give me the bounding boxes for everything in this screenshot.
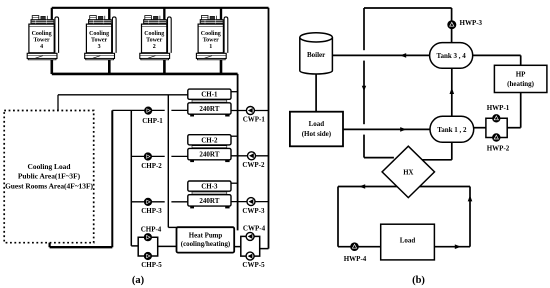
wire: C to heat pump corner <box>168 226 177 228</box>
svg-text:CH-3: CH-3 <box>201 183 218 191</box>
wire: vertical V2 pump suction header <box>130 110 132 246</box>
wire: vertical header A (condenser return riser) <box>237 74 239 231</box>
svg-text:1: 1 <box>209 44 212 50</box>
cooling tower 3 <box>85 8 116 74</box>
svg-text:CHP-4: CHP-4 <box>141 225 162 233</box>
wire: HP to HWP loop <box>507 127 521 129</box>
svg-text:Load: Load <box>400 237 416 245</box>
pump CHP-4 <box>144 233 152 241</box>
wire: CHP-2 to 240RT stub <box>171 155 187 157</box>
wire: V2 to CHP-4/5 loop <box>131 245 138 247</box>
pump HWP-4 <box>350 242 359 251</box>
svg-text:CWP-3: CWP-3 <box>242 207 265 215</box>
boiler <box>300 33 333 74</box>
wire: tank 1,2 to tank 3,4 <box>451 68 453 116</box>
wire: (b) left vertical lower <box>363 135 365 158</box>
wire: load to tank 1,2 <box>343 128 430 130</box>
svg-text:CHP-1: CHP-1 <box>142 117 163 125</box>
wire: CHP-3 line <box>131 201 164 203</box>
wire: CHP-3 to 240RT stub <box>171 201 187 203</box>
wire: down into HP top <box>520 55 522 65</box>
wire: loop left vertical <box>337 187 339 247</box>
svg-text:240RT: 240RT <box>199 105 219 113</box>
heat exchanger HX <box>382 146 434 197</box>
svg-text:Cooling: Cooling <box>201 31 221 37</box>
svg-text:HP: HP <box>516 70 526 78</box>
wire: CHP-1 line <box>112 109 164 111</box>
pump CWP-3 <box>247 198 255 206</box>
wire: load box bottom outlet <box>48 243 50 248</box>
heat pump unit <box>177 227 235 252</box>
wire: CWP-2 line <box>231 155 269 157</box>
svg-text:Guest Rooms Area(4F~13F): Guest Rooms Area(4F~13F) <box>5 182 93 191</box>
pump CHP-3 <box>144 198 152 206</box>
pump CWP-5 <box>246 252 254 260</box>
arrow up between tanks <box>450 88 455 94</box>
wire: vertical V1 return riser <box>111 110 113 247</box>
cooling load dashed box <box>4 111 94 243</box>
wire: (b) left vertical middle <box>363 61 365 125</box>
pump HWP-1 <box>492 114 500 122</box>
load box (b) <box>381 224 435 260</box>
wire: HWP-3 drop <box>451 8 453 43</box>
svg-text:Public Area(1F~3F): Public Area(1F~3F) <box>18 172 81 181</box>
svg-text:HWP-2: HWP-2 <box>487 145 510 153</box>
svg-text:Tower: Tower <box>91 38 107 44</box>
svg-text:Cooling: Cooling <box>32 31 52 37</box>
wire: CHP-2 line <box>131 155 164 157</box>
svg-text:(a): (a) <box>132 275 145 286</box>
wire: tank 1,2 bottom <box>451 142 453 160</box>
wire: HP down <box>520 93 522 128</box>
svg-text:CHP-3: CHP-3 <box>141 207 162 215</box>
wire: CH-1 supply line to load <box>58 94 188 96</box>
tank 3,4 <box>430 43 473 69</box>
tank 1,2 <box>430 116 474 142</box>
pump CWP-4 <box>246 232 254 240</box>
wire: loop top line <box>338 186 470 188</box>
svg-text:Load: Load <box>309 120 325 128</box>
load (hot side) box <box>290 112 343 147</box>
wire: condenser return bottom header <box>52 73 238 76</box>
wire: vertical header B (condenser supply riser) <box>268 8 270 249</box>
svg-text:(heating): (heating) <box>507 80 535 88</box>
wire: tank 3,4 to HP <box>473 54 521 56</box>
chiller CH-1 <box>188 89 231 116</box>
CHP-4/5 parallel pump loop <box>138 237 176 256</box>
svg-text:Cooling: Cooling <box>89 31 109 37</box>
wire: top drop tower 3 <box>108 8 110 20</box>
arrow right after load <box>455 244 461 249</box>
svg-text:CHP-2: CHP-2 <box>141 162 162 170</box>
wire: bottom return run <box>50 246 113 248</box>
wire: boiler to load (hot side) <box>315 74 317 112</box>
svg-text:Tank 1 , 2: Tank 1 , 2 <box>437 126 467 134</box>
wire: to HX upper-right <box>421 159 452 161</box>
cooling tower 4 <box>27 8 58 74</box>
svg-text:CWP-1: CWP-1 <box>243 116 266 124</box>
HP (heating) box <box>494 65 547 92</box>
svg-text:240RT: 240RT <box>199 151 219 159</box>
wire: CWP-3 line <box>231 201 269 203</box>
svg-text:CWP-2: CWP-2 <box>242 161 265 169</box>
pump HWP-3 <box>447 20 456 29</box>
svg-text:Tower: Tower <box>146 38 162 44</box>
svg-text:Tower: Tower <box>34 38 50 44</box>
HWP-1/2 parallel pump loop <box>486 118 507 137</box>
svg-text:CHP-5: CHP-5 <box>141 261 162 269</box>
pump HWP-2 <box>492 133 500 141</box>
svg-text:CH-2: CH-2 <box>201 136 218 144</box>
wire: (b) top header <box>364 7 452 9</box>
wire: loop right vertical <box>469 187 471 247</box>
svg-text:2: 2 <box>153 44 156 50</box>
svg-text:HWP-1: HWP-1 <box>487 104 510 112</box>
svg-text:(cooling/heating): (cooling/heating) <box>181 241 230 248</box>
pump CHP-2 <box>144 152 152 160</box>
arrow left on loop top <box>359 184 365 189</box>
wire: drop into load box top <box>57 95 59 111</box>
wire: condenser supply top header <box>52 7 269 9</box>
svg-text:Tower: Tower <box>203 38 219 44</box>
pump CHP-5 <box>144 252 152 260</box>
cooling tower 1 <box>196 8 227 74</box>
pump CWP-2 <box>248 152 256 160</box>
chiller CH-3 <box>188 181 231 208</box>
svg-text:CWP-5: CWP-5 <box>242 261 265 269</box>
svg-text:CH-1: CH-1 <box>201 91 218 99</box>
wire: loop bottom right <box>434 246 470 248</box>
svg-text:HX: HX <box>403 169 413 176</box>
svg-text:(Hot side): (Hot side) <box>302 130 332 138</box>
wire: CH-2 right stub <box>231 135 238 137</box>
CWP-4/5 parallel pump loop <box>234 236 268 256</box>
wire: CH-1 right stub <box>231 91 238 93</box>
arrow down on left vertical <box>362 86 366 92</box>
svg-text:CWP-4: CWP-4 <box>243 225 266 233</box>
wire: tank 1,2 to HWP loop <box>474 127 486 129</box>
svg-text:HWP-3: HWP-3 <box>460 19 483 27</box>
arrow up on loop right <box>468 195 473 201</box>
svg-text:Cooling: Cooling <box>144 31 164 37</box>
svg-text:4: 4 <box>40 44 43 50</box>
pump CWP-1 <box>246 107 254 115</box>
wire: vertical header C <box>167 95 169 228</box>
svg-text:HWP-4: HWP-4 <box>344 255 367 263</box>
svg-text:240RT: 240RT <box>199 197 219 205</box>
wire: CH-3 right stub <box>231 182 238 184</box>
wire: top drop tower 1 <box>220 8 222 20</box>
cooling tower 2 <box>140 8 171 74</box>
arrow left to boiler <box>400 53 406 58</box>
svg-text:(b): (b) <box>412 275 425 286</box>
chiller CH-2 <box>188 135 231 162</box>
wire: CWP-1 line <box>231 110 269 112</box>
wire: top drop tower 2 <box>163 8 165 20</box>
wire: CHP-1 to 240RT stub <box>171 109 187 111</box>
pump CHP-1 <box>144 107 152 115</box>
svg-text:Boiler: Boiler <box>307 51 325 59</box>
svg-text:Tank 3 , 4: Tank 3 , 4 <box>436 52 466 60</box>
wire: tank 3,4 to boiler line <box>332 54 429 56</box>
svg-text:Heat Pump: Heat Pump <box>189 233 223 240</box>
svg-text:3: 3 <box>98 44 101 50</box>
wire: loop bottom left <box>338 246 381 248</box>
wire: (b) left vertical upper <box>363 8 365 50</box>
arrow right to tank 1,2 <box>400 127 406 132</box>
wire: to HX upper-left <box>364 157 394 159</box>
svg-text:Cooling Load: Cooling Load <box>28 162 72 171</box>
